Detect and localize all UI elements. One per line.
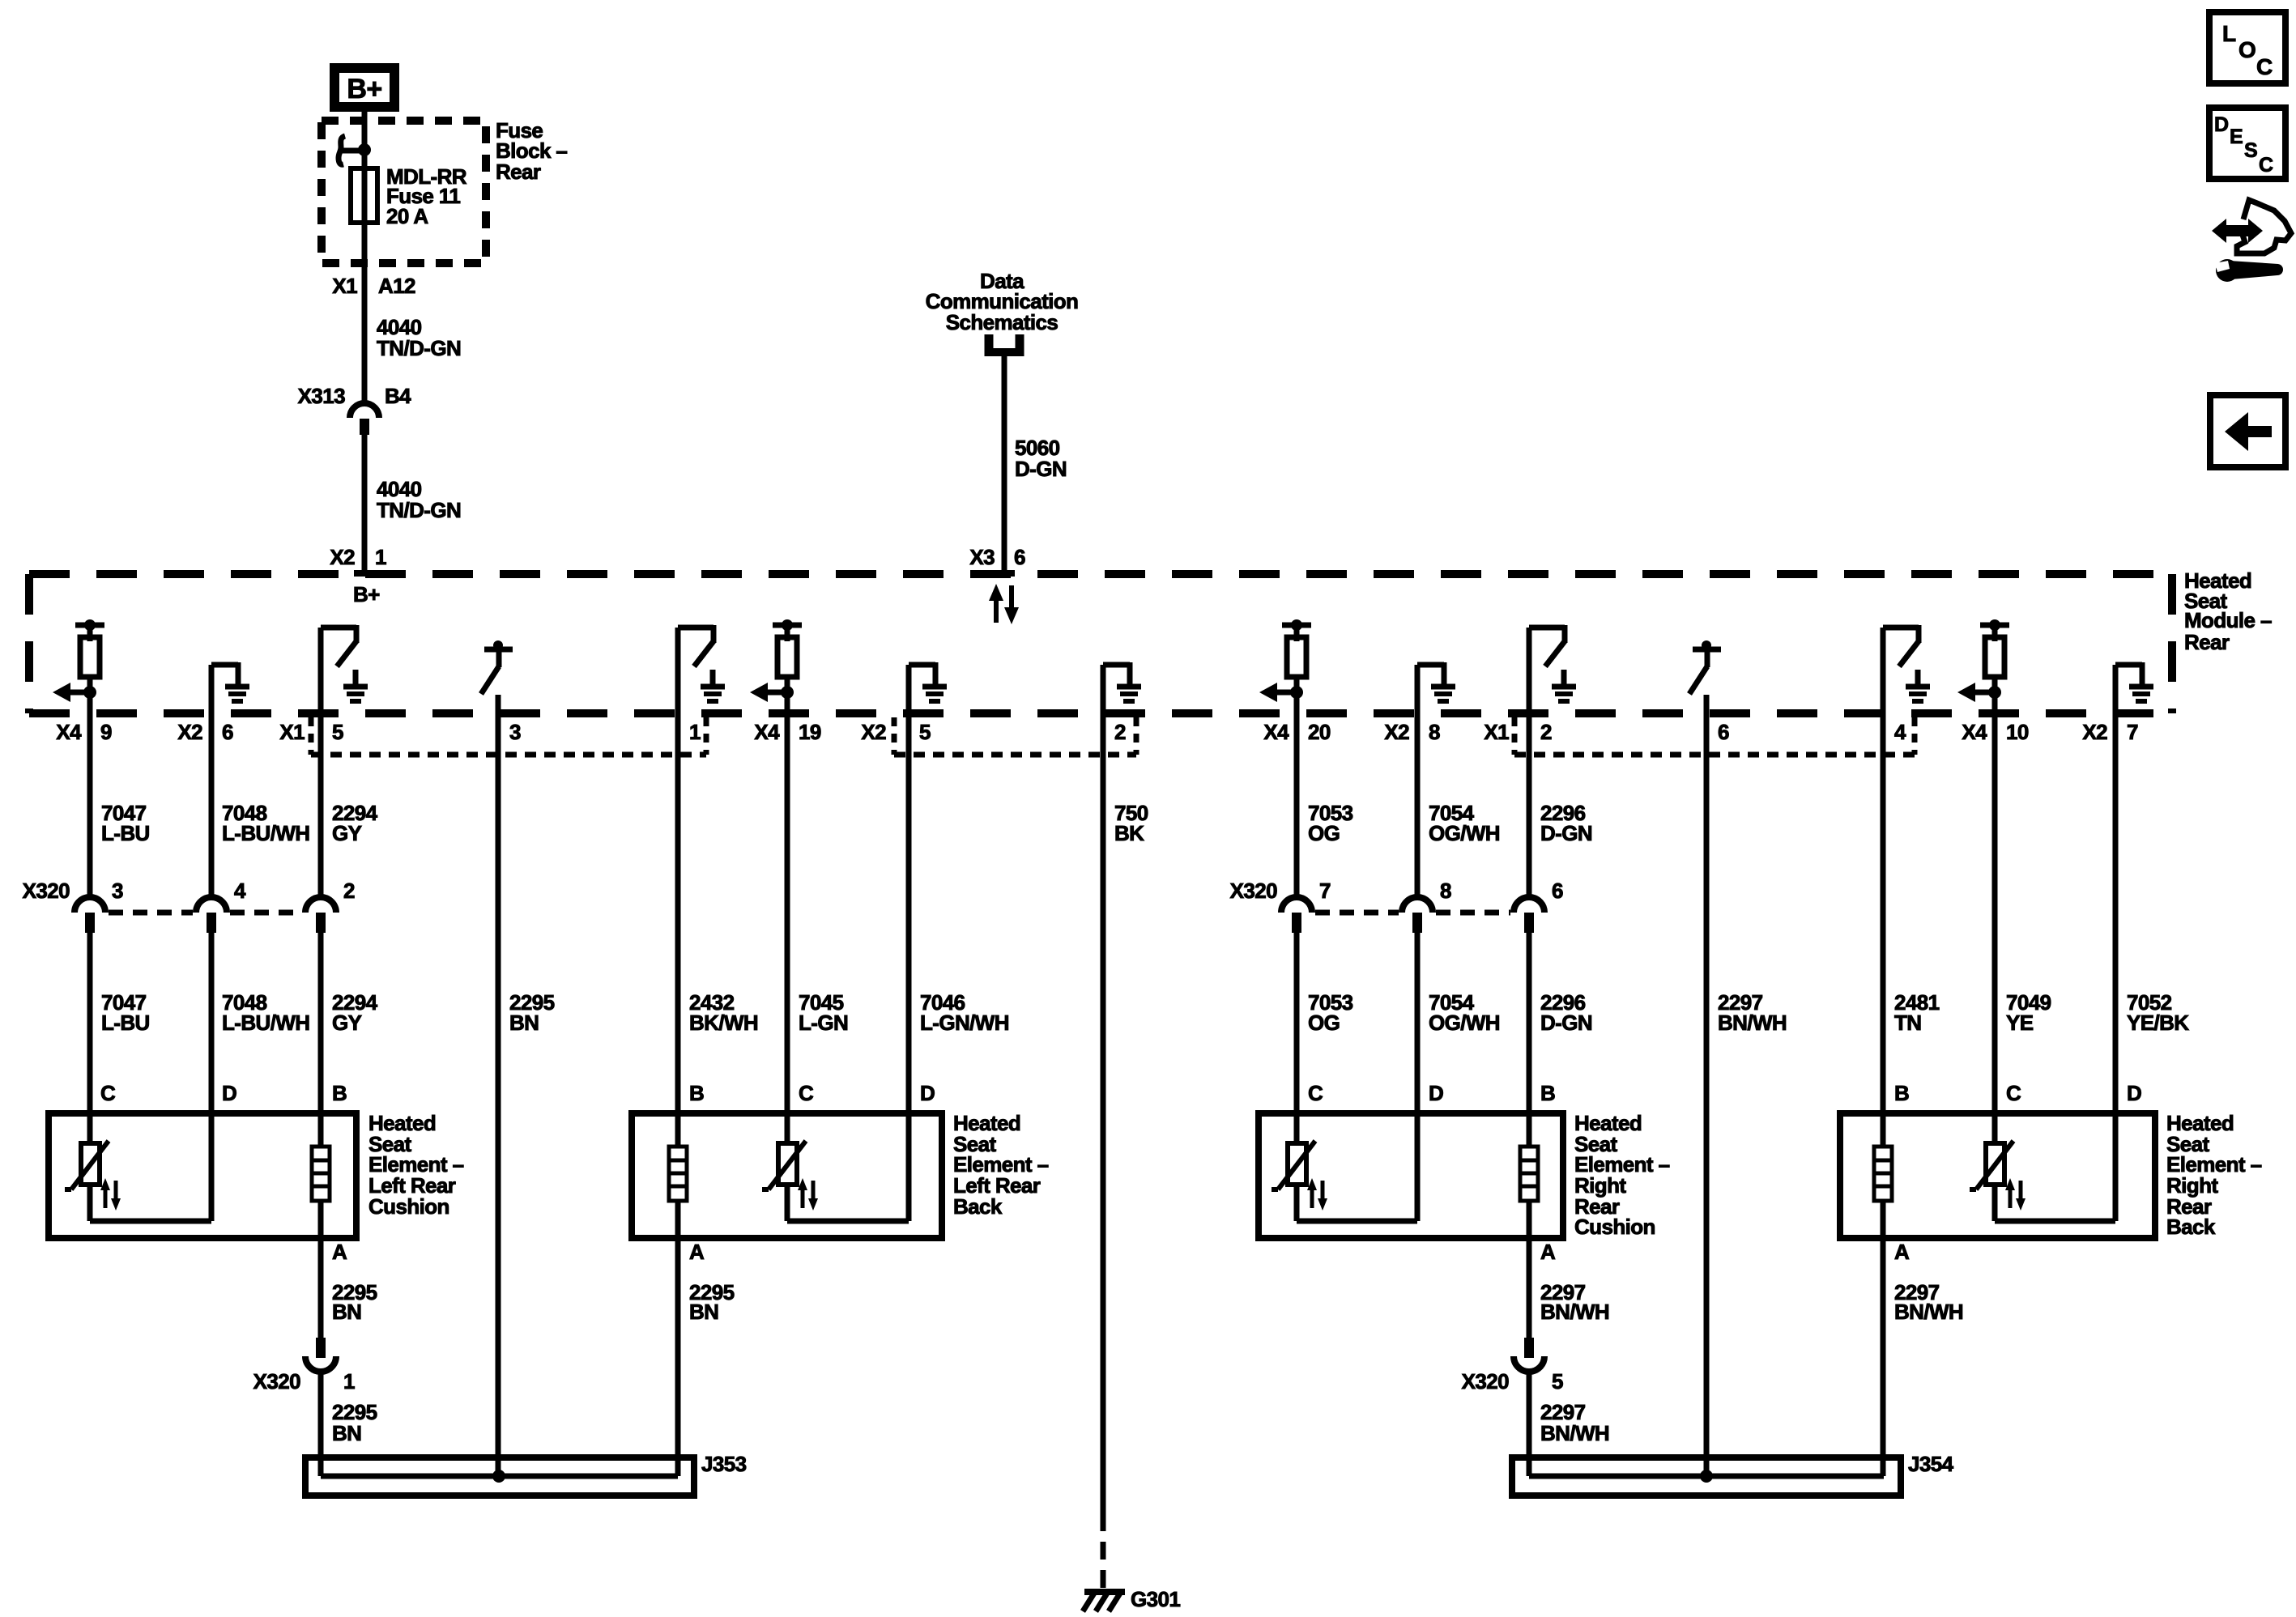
element pin B (689, 1081, 704, 1105)
svg-text:L-BU: L-BU (101, 821, 150, 845)
svg-text:Back: Back (953, 1194, 1003, 1219)
wire 2294 GY (X1-5) (318, 628, 324, 1147)
pin label X1 2 (1484, 720, 1552, 744)
wire 7047 L-BU (X4-9) (87, 692, 93, 1143)
wire label 2296 D-GN (lower) (1540, 990, 1592, 1035)
wire label 7049 YE (lower) (2006, 990, 2051, 1035)
fuse clip symbol (339, 136, 366, 164)
svg-text:L-BU/WH: L-BU/WH (222, 821, 309, 845)
svg-text:L-BU/WH: L-BU/WH (222, 1011, 309, 1035)
module terminal tick at X2-1 (354, 570, 375, 577)
svg-text:GY: GY (332, 1011, 362, 1035)
connector X320 dashed link left (109, 910, 302, 916)
wire 750 BK (pin 2 to ground) (1101, 665, 1106, 1513)
svg-text:6: 6 (1014, 545, 1025, 569)
wire label 2432 BK/WH (lower) (689, 990, 758, 1035)
element pin B (1540, 1081, 1555, 1105)
label J353 (701, 1452, 747, 1476)
wire 7045 L-GN (X4-19) (785, 692, 790, 1143)
element pin D (920, 1081, 935, 1105)
svg-text:C: C (799, 1081, 814, 1105)
svg-text:8: 8 (1440, 879, 1451, 903)
svg-text:TN/D-GN: TN/D-GN (377, 498, 461, 522)
svg-text:6: 6 (1718, 720, 1729, 744)
label MDL-RR Fuse 11 20 A (386, 164, 467, 228)
svg-text:6: 6 (1552, 879, 1563, 903)
wire label 2294 GY (lower) (332, 990, 378, 1035)
svg-text:Cushion: Cushion (368, 1194, 449, 1219)
splice J353 bus (321, 1474, 678, 1479)
pin label X2 7 (2082, 720, 2138, 744)
label pin 8 (1440, 879, 1451, 903)
wire label 2297 BN/WH (lower) (1718, 990, 1787, 1035)
heated seat element box - right rear back (1840, 1113, 2155, 1238)
svg-text:D: D (2127, 1081, 2141, 1105)
pin label X2 5 (861, 720, 931, 744)
heater element right rear back (1874, 1147, 1892, 1201)
svg-text:YE: YE (2006, 1011, 2034, 1035)
pin label X2 1 module power input (330, 545, 386, 569)
element pin A (1894, 1240, 1910, 1264)
wire label 7053 OG (upper) (1308, 801, 1353, 845)
module internal switch to ground (X1-5) (321, 625, 368, 701)
svg-text:B: B (689, 1081, 704, 1105)
connector X320 terminal 6 (1514, 897, 1544, 933)
svg-text:7: 7 (1319, 879, 1331, 903)
element pin A (1540, 1240, 1556, 1264)
svg-text:A: A (1540, 1240, 1556, 1264)
element pin C (100, 1081, 116, 1105)
svg-text:X313: X313 (298, 384, 345, 408)
wire label 2481 TN (lower) (1894, 990, 1940, 1035)
wire label 5060 D-GN (1015, 436, 1067, 481)
svg-text:D-GN: D-GN (1540, 1011, 1592, 1035)
module internal ground (X2-6) (211, 662, 249, 701)
pin label 4 (1894, 720, 1906, 744)
element pin B (1894, 1081, 1909, 1105)
svg-text:X320: X320 (1462, 1369, 1509, 1394)
svg-text:X1: X1 (332, 274, 357, 298)
icon back-arrow box (2210, 395, 2285, 467)
pin label X4 9 (56, 720, 112, 744)
thermistor left rear cushion (65, 1141, 121, 1211)
internal link C-D right rear back (1995, 1185, 2115, 1221)
off-page connector bracket (985, 334, 1024, 356)
wire label 4040 TN/D-GN upper (377, 315, 461, 360)
wire 2297 BN/WH (X320-5 to J354) (1527, 1201, 1532, 1476)
wire 2295 BN (pin 3 to J353) (496, 695, 501, 1476)
svg-text:OG/WH: OG/WH (1429, 821, 1500, 845)
ground G301 symbol (1083, 1592, 1125, 1611)
svg-text:8: 8 (1429, 720, 1440, 744)
svg-text:A: A (1894, 1240, 1910, 1264)
svg-text:7: 7 (2127, 720, 2138, 744)
wire label 2297 BN/WH (right back A) (1894, 1280, 1963, 1324)
svg-text:X320: X320 (253, 1369, 300, 1394)
svg-text:C: C (2256, 54, 2273, 79)
label pin 4 (234, 879, 246, 903)
module internal sense resistor (X4-10) (1957, 619, 2009, 702)
label J354 (1908, 1452, 1954, 1476)
svg-text:OG: OG (1308, 821, 1340, 845)
wire 4040 TN/D-GN to module (362, 435, 368, 574)
wire 7054 OG/WH (X2-8) (1415, 665, 1421, 1221)
label X313 B4 (298, 384, 412, 408)
wire label 7047 L-BU (lower) (101, 990, 150, 1035)
svg-text:BN/WH: BN/WH (1540, 1421, 1609, 1445)
svg-text:E: E (2230, 126, 2243, 148)
splice J354 box (1512, 1457, 1901, 1496)
wire 2295 BN (X320-1 to J353) (318, 1201, 324, 1476)
label Heated Seat Element - Left Rear Cushion (368, 1111, 464, 1219)
heated seat element box - left rear back (632, 1113, 942, 1238)
internal link C-D right rear cushion (1297, 1185, 1417, 1221)
icon DESC box (2209, 108, 2285, 179)
svg-text:C: C (2006, 1081, 2021, 1105)
svg-text:5: 5 (919, 720, 931, 744)
svg-text:BN/WH: BN/WH (1540, 1300, 1609, 1324)
svg-text:X1: X1 (1484, 720, 1509, 744)
module internal switch to ground (X1-2) (1529, 625, 1576, 701)
label X320 pin 5 (1462, 1369, 1563, 1394)
heated seat element box - right rear cushion (1259, 1113, 1563, 1238)
module internal sense resistor (X4-19) (750, 619, 802, 702)
wire label 7053 OG (lower) (1308, 990, 1353, 1035)
connector X320 terminal 5 (1514, 1338, 1544, 1372)
connector X313 pin B4 inline connector (350, 403, 379, 435)
junction dot J354 (1700, 1470, 1713, 1483)
module internal switch (pin 6) (1689, 640, 1721, 694)
internal link C-D left rear cushion (90, 1185, 211, 1221)
pin label 3 (509, 720, 521, 744)
element pin B (332, 1081, 347, 1105)
connector X320 terminal 4 (196, 897, 227, 933)
svg-text:TN/D-GN: TN/D-GN (377, 336, 461, 360)
node B+ inside module (353, 582, 380, 606)
label Data Communication Schematics (926, 269, 1079, 334)
svg-text:2: 2 (1114, 720, 1126, 744)
svg-text:A12: A12 (378, 274, 415, 298)
label X320 pin 7 (1230, 879, 1331, 903)
pin label X2 8 (1384, 720, 1440, 744)
fuse MDL-RR Fuse 11 20 A body (351, 168, 377, 223)
svg-text:1: 1 (375, 545, 386, 569)
svg-text:20: 20 (1308, 720, 1331, 744)
svg-text:J353: J353 (701, 1452, 747, 1476)
svg-text:O: O (2238, 37, 2256, 62)
pin label 1 (689, 720, 701, 744)
svg-text:C: C (2259, 154, 2273, 177)
pin label X1 5 (279, 720, 343, 744)
svg-text:B4: B4 (385, 384, 411, 408)
wire 2296 D-GN (X1-2) (1527, 628, 1532, 1147)
svg-text:D: D (2214, 113, 2228, 136)
svg-text:L-GN: L-GN (799, 1011, 848, 1035)
svg-text:D: D (1429, 1081, 1443, 1105)
svg-text:X2: X2 (330, 545, 355, 569)
connector X320 terminal 8 (1402, 897, 1433, 933)
wire 2481 TN (pin 4) (1881, 628, 1886, 1147)
label X320 pin 1 (253, 1369, 355, 1394)
connector X2 dotted outline (middle) (894, 717, 1136, 755)
svg-text:4: 4 (234, 879, 246, 903)
svg-text:X2: X2 (177, 720, 202, 744)
pin label X4 20 (1263, 720, 1330, 744)
icon connector-end-view (arrow and wrench) (2212, 200, 2291, 282)
svg-text:2: 2 (343, 879, 355, 903)
svg-text:B: B (1894, 1081, 1909, 1105)
heater element left rear cushion (312, 1147, 330, 1201)
svg-text:G301: G301 (1131, 1587, 1180, 1611)
svg-text:9: 9 (100, 720, 112, 744)
module internal switch (pin 3) (481, 640, 513, 694)
connector X320 terminal 1 (305, 1338, 336, 1372)
wire 4040 TN/D-GN from B+ through fuse (362, 112, 368, 403)
wire label 7045 L-GN (lower) (799, 990, 848, 1035)
svg-text:Cushion: Cushion (1574, 1215, 1655, 1239)
svg-text:X1: X1 (279, 720, 305, 744)
svg-text:D-GN: D-GN (1015, 457, 1067, 481)
heater element right rear cushion (1520, 1147, 1538, 1201)
element pin C (799, 1081, 814, 1105)
element pin A (332, 1240, 347, 1264)
svg-text:C: C (1308, 1081, 1323, 1105)
svg-text:2: 2 (1540, 720, 1552, 744)
svg-text:Schematics: Schematics (946, 310, 1059, 334)
thermistor left rear back (762, 1141, 818, 1211)
svg-text:19: 19 (799, 720, 821, 744)
wire 5060 D-GN serial data (1002, 356, 1007, 574)
svg-text:L-BU: L-BU (101, 1011, 150, 1035)
wire 7053 OG (X4-20) (1294, 692, 1300, 1143)
svg-text:B: B (1540, 1081, 1555, 1105)
svg-text:A: A (689, 1240, 705, 1264)
svg-text:S: S (2244, 139, 2257, 162)
svg-text:BK: BK (1114, 821, 1144, 845)
svg-text:L: L (2222, 21, 2236, 46)
label Heated Seat Element - Left Rear Back (953, 1111, 1049, 1219)
internal link C-D left rear back (787, 1185, 909, 1221)
icon LOC box (2209, 12, 2285, 83)
connector X320 dashed link right (1315, 910, 1510, 916)
wire 2297 BN/WH (element A to J354) (1881, 1201, 1886, 1476)
wire 750 BK dashed drop to G301 (1101, 1513, 1106, 1592)
pin label X4 10 (1962, 720, 2028, 744)
label pin 6 (1552, 879, 1563, 903)
module internal ground (X2-7) (2115, 662, 2153, 701)
wire label 2295 BN (lower) (509, 990, 555, 1035)
svg-text:3: 3 (509, 720, 521, 744)
svg-text:D: D (222, 1081, 236, 1105)
wire label 7046 L-GN/WH (lower) (920, 990, 1009, 1035)
wire label 4040 TN/D-GN lower (377, 477, 461, 522)
svg-text:BN: BN (689, 1300, 718, 1324)
svg-text:Rear: Rear (2184, 630, 2230, 654)
wire label 7047 L-BU (upper) (101, 801, 150, 845)
svg-text:4: 4 (1894, 720, 1906, 744)
module internal switch to ground (pin 1) (678, 625, 725, 701)
svg-text:Module –: Module – (2184, 608, 2272, 632)
svg-text:BN/WH: BN/WH (1894, 1300, 1963, 1324)
heated seat element box - left rear cushion (49, 1113, 356, 1238)
wire 2295 BN (element A to J353) (675, 1201, 681, 1476)
wire label 2295 BN (to J353) (332, 1400, 377, 1445)
svg-text:D-GN: D-GN (1540, 821, 1592, 845)
splice J353 box (305, 1457, 694, 1496)
svg-text:X320: X320 (23, 879, 70, 903)
wire 7048 L-BU/WH (X2-6) (209, 665, 215, 1221)
svg-text:X4: X4 (1263, 720, 1289, 744)
svg-text:J354: J354 (1908, 1452, 1954, 1476)
svg-text:Rear: Rear (496, 160, 541, 184)
power symbol B+ box (334, 68, 394, 107)
label Fuse Block - Rear (496, 118, 567, 184)
wire label 750 BK (upper) (1114, 801, 1148, 845)
svg-text:X320: X320 (1230, 879, 1277, 903)
svg-text:OG: OG (1308, 1011, 1340, 1035)
connector X320 terminal 3 (75, 897, 105, 933)
wire label 2295 BN (left back A) (689, 1280, 735, 1324)
element pin D (1429, 1081, 1443, 1105)
svg-text:L-GN/WH: L-GN/WH (920, 1011, 1009, 1035)
module internal ground (pin 2) (1103, 662, 1141, 701)
module internal sense resistor (X4-9) (53, 619, 104, 702)
wire label 7054 OG/WH (upper) (1429, 801, 1500, 845)
svg-text:20 A: 20 A (386, 204, 428, 228)
connector X320 terminal 2 (305, 897, 336, 933)
wire label 7054 OG/WH (lower) (1429, 990, 1500, 1035)
pin label X2 6 (177, 720, 233, 744)
wire label 2295 BN (left cushion A) (332, 1280, 377, 1324)
svg-text:BN: BN (332, 1300, 361, 1324)
label Heated Seat Element - Right Rear Cushion (1574, 1111, 1670, 1239)
svg-text:D: D (920, 1081, 935, 1105)
wire 2432 BK/WH (pin 1) (675, 628, 681, 1147)
svg-text:Back: Back (2166, 1215, 2216, 1239)
heater element left rear back (669, 1147, 687, 1201)
connector X320 terminal 7 (1281, 897, 1312, 933)
svg-text:BN: BN (332, 1421, 361, 1445)
svg-text:BN: BN (509, 1011, 539, 1035)
svg-text:5: 5 (1552, 1369, 1563, 1394)
module internal ground (X2-8) (1417, 662, 1455, 701)
connector X1 dotted outline (left) (311, 717, 706, 755)
module internal sense resistor (X4-20) (1259, 619, 1311, 702)
label X320 pin 3 (23, 879, 123, 903)
svg-text:1: 1 (689, 720, 701, 744)
svg-text:C: C (100, 1081, 116, 1105)
module box Heated Seat Module - Rear (dashed) (29, 574, 2172, 713)
module internal ground (X2-5) (909, 662, 947, 701)
wire label 2294 GY (upper) (332, 801, 378, 845)
pin label X4 19 (754, 720, 820, 744)
element pin C (1308, 1081, 1323, 1105)
svg-text:5: 5 (332, 720, 343, 744)
svg-text:B+: B+ (353, 582, 380, 606)
pin label 6 (1718, 720, 1729, 744)
label pin 2 (343, 879, 355, 903)
label Heated Seat Element - Right Rear Back (2166, 1111, 2262, 1239)
wire label 7048 L-BU/WH (lower) (222, 990, 309, 1035)
svg-text:OG/WH: OG/WH (1429, 1011, 1500, 1035)
junction dot J353 (492, 1470, 505, 1483)
thermistor right rear back (1970, 1141, 2026, 1211)
svg-text:X4: X4 (754, 720, 780, 744)
element pin D (2127, 1081, 2141, 1105)
svg-text:X3: X3 (969, 545, 995, 569)
svg-text:B: B (332, 1081, 347, 1105)
svg-text:X2: X2 (861, 720, 886, 744)
svg-text:GY: GY (332, 821, 362, 845)
pin label X3 6 (969, 545, 1025, 569)
pin label X1 A12 (332, 274, 415, 298)
svg-text:1: 1 (343, 1369, 355, 1394)
svg-text:6: 6 (222, 720, 233, 744)
wire label 2297 BN/WH (right cushion A) (1540, 1280, 1609, 1324)
module internal switch to ground (pin 4) (1883, 625, 1930, 701)
wire label 2296 D-GN (upper) (1540, 801, 1592, 845)
wire 7046 L-GN/WH (X2-5) (906, 665, 912, 1221)
element pin A (689, 1240, 705, 1264)
svg-text:X2: X2 (1384, 720, 1409, 744)
wire label 7048 L-BU/WH (upper) (222, 801, 309, 845)
svg-text:A: A (332, 1240, 347, 1264)
svg-text:TN: TN (1894, 1011, 1921, 1035)
module terminal tick at X3-6 (994, 570, 1015, 577)
wire label 2297 BN/WH (to J354) (1540, 1400, 1609, 1445)
svg-text:B+: B+ (347, 74, 381, 104)
thermistor right rear cushion (1272, 1141, 1327, 1211)
svg-text:YE/BK: YE/BK (2127, 1011, 2189, 1035)
wire 7049 YE (X4-10) (1992, 692, 1998, 1143)
wire label 7052 YE/BK (lower) (2127, 990, 2189, 1035)
svg-text:BK/WH: BK/WH (689, 1011, 758, 1035)
junction dot in fuse block (358, 143, 371, 156)
splice J354 bus (1529, 1474, 1884, 1479)
svg-text:10: 10 (2006, 720, 2029, 744)
fuse block dashed outline Fuse Block - Rear (322, 121, 486, 263)
label Heated Seat Module - Rear (2184, 568, 2272, 654)
label G301 (1131, 1587, 1180, 1611)
svg-text:X4: X4 (1962, 720, 1987, 744)
connector X1 dotted outline (right) (1514, 717, 1915, 755)
element pin C (2006, 1081, 2021, 1105)
wire 7052 YE/BK (X2-7) (2113, 665, 2119, 1221)
svg-text:3: 3 (112, 879, 123, 903)
svg-text:BN/WH: BN/WH (1718, 1011, 1787, 1035)
pin label 2 (1114, 720, 1126, 744)
svg-text:X2: X2 (2082, 720, 2107, 744)
element pin D (222, 1081, 236, 1105)
svg-text:X4: X4 (56, 720, 82, 744)
wire 2297 BN/WH (pin 6 to J354) (1704, 695, 1710, 1476)
bidirectional data arrows (989, 584, 1019, 624)
